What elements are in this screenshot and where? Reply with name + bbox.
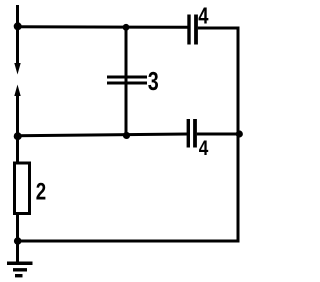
svg-text:2: 2 xyxy=(36,178,46,205)
svg-text:4: 4 xyxy=(198,4,209,29)
svg-text:4: 4 xyxy=(199,136,209,160)
svg-text:3: 3 xyxy=(148,66,159,95)
